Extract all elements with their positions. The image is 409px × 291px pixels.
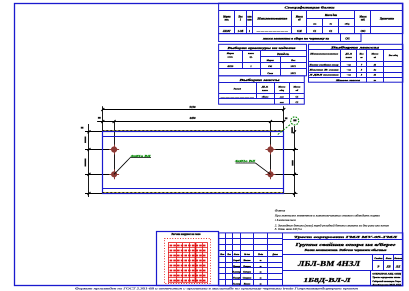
leader left anchor label (114, 158, 151, 175)
svg-text:Н.контр: Н.контр (231, 272, 241, 274)
svg-text:т: т (260, 266, 262, 268)
dimension line overall width (103, 109, 284, 111)
extension line left edge (102, 106, 104, 132)
svg-text:Балка монтажная. Рабочие черте: Балка монтажная. Рабочие чертежи обычные (303, 249, 388, 252)
GOST title block (219, 233, 403, 286)
left vertical dimension line (88, 124, 90, 197)
svg-text:С41: С41 (268, 65, 272, 68)
svg-text:Вес общ: Вес общ (388, 54, 398, 57)
svg-text:ОТКРЫТОЕ АКЦ. ОБЩ: ОТКРЫТОЕ АКЦ. ОБЩ (372, 273, 401, 276)
bottom edge extension stub left (85, 193, 102, 195)
svg-text:Подп: Подп (257, 253, 264, 256)
svg-text:т: т (260, 277, 262, 279)
small mark near corner (285, 117, 288, 119)
svg-text:4хØ1о ВЛ: 4хØ1о ВЛ (234, 159, 257, 163)
slab outer outline (blue) (102, 130, 283, 132)
svg-text:Выборка арматуры на изделие: Выборка арматуры на изделие (226, 46, 297, 50)
extension stub top edge left (85, 131, 102, 133)
table: specification (Spetsifikatsiya) top-right (219, 3, 403, 41)
svg-text:Сибирский институт Гипро: Сибирский институт Гипро (372, 280, 401, 283)
svg-text:Балка В свая: Балка В свая (307, 69, 339, 72)
svg-text:т: т (260, 283, 262, 285)
svg-text:1-ОЕ: 1-ОЕ (238, 30, 244, 33)
svg-text:ЛБЛ-ВМ 4НЗЛ: ЛБЛ-ВМ 4НЗЛ (297, 259, 361, 268)
left dim text 1 (85, 137, 87, 144)
svg-text:Спецификация балки: Спецификация балки (285, 6, 335, 10)
svg-text:вт: вт (313, 23, 316, 26)
svg-text:Наименование: Наименование (256, 18, 289, 21)
anchor mark at (270.5,149.5) (266, 145, 276, 155)
svg-text:Дата: Дата (272, 254, 279, 256)
svg-text:При монтаже элементов и замоно: При монтаже элементов и замоноличивании … (274, 213, 380, 217)
small dim mark left (98, 117, 101, 119)
bottom edge extension stub right (284, 193, 298, 195)
svg-text:4450: 4450 (189, 116, 197, 120)
extension line anchor row1 right (271, 149, 299, 151)
anchor mark at (270.5,174.3) (266, 169, 276, 179)
svg-text:Примечание: Примечание (379, 18, 395, 21)
svg-text:Кол: Кол (290, 59, 296, 62)
svg-text:т: т (260, 272, 262, 274)
svg-text:15С1: 15С1 (290, 72, 295, 75)
svg-text:С41: С41 (345, 38, 350, 41)
extension line left anchors (114, 122, 116, 177)
svg-text:Выборка массы: Выборка массы (329, 45, 379, 49)
position balloon (green dashed circle) (278, 124, 292, 135)
svg-text:Петров: Петров (242, 266, 251, 268)
svg-text:Козлов: Козлов (243, 283, 250, 285)
svg-text:класс: класс (346, 56, 353, 59)
svg-text:Сная: Сная (267, 72, 273, 75)
left dim text 2 (85, 159, 87, 167)
svg-text:кг: кг (374, 79, 376, 82)
svg-text:Выборка массы: Выборка массы (238, 78, 280, 82)
extension line right edge (283, 106, 285, 132)
svg-text:5150: 5150 (190, 105, 197, 109)
svg-text:ллл: ллл (279, 95, 285, 98)
svg-text:Формат произведен по ГОСТ 2.30: Формат произведен по ГОСТ 2.301-68 и отп… (75, 287, 358, 290)
svg-text:общ: общ (345, 23, 350, 26)
svg-text:Балка свайная опор: Балка свайная опор (308, 64, 339, 67)
svg-text:класс: класс (262, 89, 269, 92)
svg-text:• чя: • чя (347, 64, 352, 67)
svg-text:ЛБ: ЛБ (385, 264, 390, 268)
svg-text:— — — — — — — —: — — — — — — — — (256, 30, 289, 33)
svg-text:1: 1 (250, 65, 251, 68)
left small mark (81, 127, 84, 129)
svg-text:Р: Р (377, 264, 379, 268)
svg-text:Масса дет: Масса дет (324, 14, 337, 17)
leader right anchor label (236, 163, 271, 174)
svg-text:ЛЛ13Г: ЛЛ13Г (222, 30, 231, 33)
svg-text:ар.: ар. (249, 55, 253, 58)
svg-text:Провер: Провер (232, 266, 241, 268)
svg-text:дана: дана (275, 208, 286, 212)
anchor mark at (114.1,149.5) (109, 145, 119, 155)
svg-text:Изм: Изм (219, 254, 225, 256)
svg-text:ЛЛ13: ЛЛ13 (226, 65, 234, 68)
svg-text:поз.: поз. (225, 19, 230, 22)
right dim text 2 (292, 160, 294, 166)
svg-text:изд.: изд. (361, 19, 366, 22)
svg-text:Группа свайная опора на в/бере: Группа свайная опора на в/берег (294, 242, 397, 247)
svg-text:С1: С1 (295, 101, 298, 104)
svg-text:15С1: 15С1 (290, 65, 295, 68)
svg-text:41: 41 (373, 74, 377, 77)
svg-text:С.М: С.М (297, 30, 302, 33)
svg-text:Стадия: Стадия (374, 257, 383, 260)
svg-text:Гл.спец: Гл.спец (232, 283, 241, 285)
svg-text:Трест горпроект ГМЛ МУ-05-ГМ: Трест горпроект ГМЛ МУ-05-ГМЛ (294, 235, 398, 239)
svg-text:сБалл: сБалл (262, 95, 269, 98)
table: mass selection (Vyborka massy) small (219, 76, 305, 104)
svg-text:С9С: С9С (361, 30, 366, 33)
svg-text:Расчет нагрузок на сваю: Расчет нагрузок на сваю (171, 233, 200, 236)
svg-text:Смирнов: Смирнов (243, 277, 252, 279)
svg-text:общ: общ (280, 89, 285, 92)
svg-text:С1: С1 (295, 95, 298, 98)
svg-text:Листов: Листов (393, 258, 402, 260)
svg-text:Итого масса: Итого масса (334, 79, 361, 82)
svg-text:1Б8Д-ВЛ-Л: 1Б8Д-ВЛ-Л (304, 277, 352, 284)
svg-text:Лист: Лист (233, 254, 240, 256)
right vertical dimension line (294, 126, 296, 197)
anchor mark at (114.1,174.3) (109, 169, 119, 179)
svg-text:— — — — — — —: — — — — — — — (219, 95, 255, 98)
extension line anchor row1 left (85, 149, 112, 151)
svg-text:ллл: ллл (279, 101, 285, 104)
svg-text:шт: шт (247, 19, 251, 22)
balloon number (293, 119, 296, 121)
svg-text:т: т (260, 260, 262, 262)
svg-text:Леноблпроект МСК-ЛТД: Леноблпроект МСК-ЛТД (371, 284, 401, 287)
svg-text:Л ДВЛ колонна: Л ДВЛ колонна (308, 74, 340, 77)
svg-text:Расход ст.: Расход ст. (277, 53, 290, 56)
svg-text:4хØ1о ВЛ: 4хØ1о ВЛ (129, 154, 152, 158)
svg-text:Разраб: Разраб (233, 259, 240, 262)
blue box around red table (157, 232, 219, 286)
table: rebar selection (Vyborka armatury) (219, 44, 307, 76)
extension line anchor row2 left (85, 174, 112, 176)
slab inner bottom edge (102, 188, 283, 190)
svg-text:Иванов: Иванов (242, 260, 250, 262)
svg-text:Утверд: Утверд (233, 276, 241, 279)
table: details mass list right (309, 44, 403, 82)
svg-text:Расход: Расход (234, 88, 242, 91)
svg-text:ЛЛ: ЛЛ (395, 264, 401, 268)
svg-text:2. Закладные детали (углы) пер: 2. Закладные детали (углы) перед укладко… (275, 222, 390, 227)
red hatched mini table (165, 239, 211, 284)
slab outer rectangle (103, 132, 284, 194)
dimension line anchor spacing (97, 121, 284, 123)
svg-text:Марка: Марка (266, 59, 275, 62)
hidden dashed edge bottom (102, 192, 283, 194)
svg-text:Трест горпроект инст.: Трест горпроект инст. (372, 277, 401, 279)
svg-text:41: 41 (373, 64, 377, 67)
svg-text:элем.: элем. (226, 55, 233, 58)
right dim text 1 (291, 127, 293, 133)
svg-text:Наименование: Наименование (308, 53, 339, 56)
svg-text:1. В монтажном смысле: 1. В монтажном смысле (275, 218, 296, 222)
svg-text:Сидоров: Сидоров (243, 271, 251, 274)
extension line right anchors (270, 122, 272, 177)
extension line anchor row2 right (271, 174, 299, 176)
svg-text:3. Отм. низа 247,5 в: 3. Отм. низа 247,5 в (275, 228, 303, 231)
svg-text:масса элемента в сборе по черт: масса элемента в сборе по чертежу кг (262, 38, 330, 41)
svg-text:№ док: № док (243, 253, 251, 256)
svg-text:Лист: Лист (385, 258, 392, 260)
slab inner top edge (102, 136, 283, 138)
